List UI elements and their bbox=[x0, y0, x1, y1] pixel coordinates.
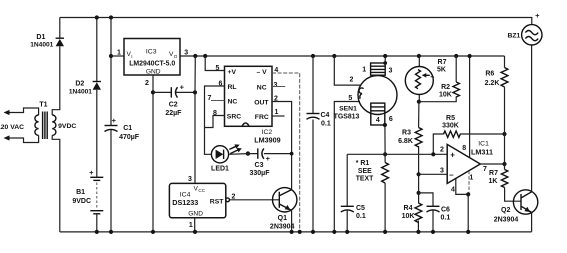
resistor R3 6.8K bbox=[398, 102, 422, 175]
svg-text:6: 6 bbox=[389, 116, 393, 123]
svg-text:IC1: IC1 bbox=[478, 141, 489, 148]
IC2 LM3909 bbox=[208, 65, 281, 145]
svg-text:0.1: 0.1 bbox=[321, 121, 331, 128]
svg-text:4: 4 bbox=[376, 117, 380, 124]
svg-text:C1: C1 bbox=[123, 125, 132, 132]
node: IC1 gnd / bottom rail bbox=[466, 230, 470, 234]
5V rail bbox=[180, 55, 505, 57]
svg-text:330K: 330K bbox=[442, 123, 459, 130]
wire IC2 pin1 FRC stub bbox=[272, 115, 285, 117]
node: pot / R2 junction bbox=[417, 100, 421, 104]
svg-text:DS1233: DS1233 bbox=[172, 198, 198, 207]
capacitor C1 bbox=[105, 116, 140, 141]
svg-text:* R1: * R1 bbox=[356, 160, 370, 167]
node: C4 / bottom rail bbox=[311, 230, 315, 234]
svg-text:LM3909: LM3909 bbox=[254, 136, 280, 145]
node: 5V rail / C4 line bbox=[311, 54, 315, 58]
wire pins 1-4 to ground bbox=[467, 194, 469, 232]
svg-text:6.8K: 6.8K bbox=[398, 138, 413, 145]
svg-text:0.1: 0.1 bbox=[441, 215, 451, 222]
node: R5 / output line bbox=[502, 132, 506, 136]
wire SEN1 pin 5 to ground bbox=[334, 102, 360, 232]
svg-text:SEN1: SEN1 bbox=[339, 106, 357, 113]
wire IC1 pin 7 output bbox=[480, 163, 504, 165]
- input wire to IC1 pin 3 bbox=[419, 173, 448, 175]
wire IC2 pin7 NC stub bbox=[211, 100, 225, 102]
svg-text:9VDC: 9VDC bbox=[72, 198, 91, 205]
resistor R6 2.2K bbox=[485, 56, 508, 134]
svg-text:2: 2 bbox=[350, 77, 354, 84]
wire to R4 bbox=[418, 174, 420, 203]
node: sensor line / + input line bbox=[383, 152, 387, 156]
wire IC1 pin 1 bbox=[468, 171, 470, 195]
node: GND line / C2 bbox=[151, 90, 155, 94]
diode D2 bbox=[69, 18, 101, 178]
svg-text:NC: NC bbox=[257, 84, 267, 91]
svg-text:2: 2 bbox=[440, 146, 444, 153]
node: C3 / OUT line bbox=[290, 152, 294, 156]
svg-text:RST: RST bbox=[210, 199, 224, 206]
wire IC2 pin4 -V to ground bbox=[272, 73, 300, 232]
wire IC2 pin5 +V bbox=[205, 56, 224, 71]
svg-text:IC3: IC3 bbox=[146, 48, 157, 55]
svg-text:C6: C6 bbox=[441, 206, 450, 213]
svg-text:D2: D2 bbox=[75, 81, 84, 88]
node: 5V rail / R2 bbox=[454, 54, 458, 58]
svg-text:120 VAC: 120 VAC bbox=[0, 124, 24, 131]
wire IC4 pin1 to ground bbox=[194, 218, 196, 232]
svg-text:R5: R5 bbox=[446, 115, 455, 122]
svg-text:Q1: Q1 bbox=[278, 215, 287, 222]
gas sensor SEN1 TGS813 bbox=[334, 56, 397, 125]
wire IC1 pin 8 to 5V rail bbox=[469, 56, 471, 158]
svg-text:SEE: SEE bbox=[358, 168, 372, 175]
node: C6 branch bbox=[417, 191, 421, 195]
svg-text:22µF: 22µF bbox=[165, 110, 182, 117]
capacitor C6 bbox=[419, 193, 451, 232]
svg-text:9VDC: 9VDC bbox=[58, 123, 76, 130]
svg-text:8: 8 bbox=[462, 145, 466, 152]
node: IC4 pin1 / bottom rail bbox=[193, 230, 197, 234]
wire IC2 pin6 RL to LED1 bbox=[205, 86, 225, 154]
bottom rail bbox=[60, 231, 532, 233]
battery B1 9VDC bbox=[72, 168, 103, 232]
node: -V / bottom rail bbox=[298, 230, 302, 234]
wire Q2 emitter to ground bbox=[531, 212, 533, 232]
svg-text:LM311: LM311 bbox=[471, 148, 493, 157]
svg-text:10K: 10K bbox=[439, 91, 452, 98]
node: pin1/pin4 junction bbox=[466, 192, 470, 196]
svg-text:Q2: Q2 bbox=[501, 207, 510, 214]
svg-text:BZ1: BZ1 bbox=[507, 32, 520, 39]
wire C3 to OUT line bbox=[264, 153, 292, 155]
svg-text:LED1: LED1 bbox=[211, 165, 229, 172]
svg-text:RL: RL bbox=[228, 84, 237, 91]
wire Q2 collector to BZ1 bbox=[531, 45, 533, 192]
svg-text:+: + bbox=[112, 116, 117, 125]
svg-text:TGS813: TGS813 bbox=[334, 113, 360, 120]
svg-text:FRC: FRC bbox=[255, 114, 269, 121]
wire C4 line bbox=[312, 56, 314, 232]
capacitor C3 330uF bbox=[250, 148, 271, 177]
svg-text:+: + bbox=[89, 168, 94, 177]
svg-text:TEXT: TEXT bbox=[356, 176, 374, 183]
node: B1 / bottom rail bbox=[95, 230, 99, 234]
resistor R7 1K bbox=[489, 170, 521, 202]
svg-text:–: – bbox=[449, 171, 454, 180]
resistor R5 330K bbox=[433, 115, 504, 154]
wire SEN1 electrode down to + input line bbox=[384, 125, 386, 154]
svg-text:SRC: SRC bbox=[227, 113, 241, 120]
node: SEN1 element top right bbox=[383, 61, 387, 65]
node: 5V rail / IC2 +V bbox=[203, 54, 207, 58]
node: C1 / bottom rail bbox=[109, 230, 113, 234]
wire IC3 GND line bbox=[152, 75, 154, 232]
wire Q1 emitter to ground bbox=[291, 210, 293, 232]
svg-text:+: + bbox=[535, 11, 540, 20]
svg-text:3: 3 bbox=[274, 82, 278, 89]
node: GND line / bottom rail bbox=[151, 230, 155, 234]
svg-text:7: 7 bbox=[208, 95, 212, 102]
wire SEN1 pin 2 bbox=[334, 56, 360, 85]
svg-text:2N3904: 2N3904 bbox=[494, 216, 519, 223]
svg-text:1: 1 bbox=[117, 50, 121, 57]
svg-text:LM2940CT-5.0: LM2940CT-5.0 bbox=[129, 61, 175, 68]
wire IC2 pin2 OUT down to Q1 collector bbox=[272, 102, 292, 190]
node: 5V rail / SEN1 pin2 bbox=[332, 54, 336, 58]
svg-text:– V: – V bbox=[257, 69, 268, 76]
svg-text:O: O bbox=[174, 54, 178, 59]
svg-text:R4: R4 bbox=[404, 205, 413, 212]
node: 5V rail / SEN1 pins1-3 bbox=[383, 54, 387, 58]
capacitor C2 bbox=[153, 83, 195, 118]
transistor Q2 2N3904 bbox=[494, 190, 538, 224]
resistor R4 10K bbox=[402, 203, 422, 232]
svg-text:R2: R2 bbox=[441, 84, 450, 91]
resistor R1 (see text) bbox=[356, 154, 389, 232]
capacitor C5 bbox=[341, 205, 366, 220]
svg-text:3: 3 bbox=[188, 176, 192, 183]
svg-text:1: 1 bbox=[275, 109, 279, 116]
svg-text:I: I bbox=[131, 54, 132, 59]
svg-text:R7: R7 bbox=[489, 170, 498, 177]
svg-text:1: 1 bbox=[189, 222, 193, 229]
node: LED1 / C3 bbox=[246, 151, 250, 155]
wire C1 line bbox=[110, 18, 112, 232]
node: - input line bbox=[417, 172, 421, 176]
node: top rail / C1 line bbox=[109, 15, 113, 19]
svg-text:3: 3 bbox=[388, 67, 392, 74]
svg-text:1N4001: 1N4001 bbox=[69, 88, 92, 95]
svg-text:C5: C5 bbox=[356, 205, 365, 212]
node: C2 / IC4 line bbox=[193, 90, 197, 94]
svg-text:GND: GND bbox=[146, 69, 161, 76]
svg-text:B1: B1 bbox=[76, 189, 85, 196]
svg-text:470µF: 470µF bbox=[119, 134, 140, 141]
node: top rail / D2 bbox=[95, 15, 99, 19]
svg-text:5K: 5K bbox=[437, 67, 446, 74]
node: Q1 emitter / bottom rail bbox=[290, 230, 294, 234]
LED1 bbox=[211, 142, 243, 172]
wire C5 branch bbox=[346, 154, 348, 232]
svg-text:OUT: OUT bbox=[254, 99, 269, 106]
svg-text:10K: 10K bbox=[402, 213, 415, 220]
node: SEN1 bottom element bbox=[383, 123, 387, 127]
svg-text:+: + bbox=[180, 83, 185, 92]
node: C5 / bottom rail bbox=[345, 230, 349, 234]
node: R1 / bottom rail bbox=[383, 230, 387, 234]
node: R4 / bottom rail bbox=[416, 230, 420, 234]
+ input line of IC1 bbox=[347, 153, 447, 155]
wire pot node to R2 bottom bbox=[419, 97, 456, 102]
svg-text:5: 5 bbox=[348, 95, 352, 102]
resistor R2 10K bbox=[439, 56, 459, 98]
potentiometer R7 5K bbox=[405, 56, 446, 102]
transformer T1 bbox=[0, 102, 76, 143]
svg-text:0.1: 0.1 bbox=[356, 213, 366, 220]
node: SEN1 pin5 / bottom rail bbox=[332, 230, 336, 234]
svg-text:1K: 1K bbox=[489, 178, 498, 185]
op-amp IC1 LM311 bbox=[440, 141, 493, 194]
wire IC1 pin 4 bbox=[456, 179, 468, 195]
svg-text:+: + bbox=[266, 154, 271, 163]
regulator IC3 LM2940CT-5.0 bbox=[111, 39, 188, 88]
svg-text:C4: C4 bbox=[321, 112, 330, 119]
svg-text:GND: GND bbox=[188, 210, 203, 217]
IC4 DS1233 bbox=[169, 176, 235, 229]
node: R5 / + input bbox=[431, 152, 435, 156]
svg-text:+V: +V bbox=[228, 69, 237, 76]
svg-text:3: 3 bbox=[440, 168, 444, 175]
svg-text:R6: R6 bbox=[485, 71, 494, 78]
svg-text:4: 4 bbox=[451, 187, 455, 194]
transistor Q1 2N3904 bbox=[270, 188, 297, 231]
svg-text:R3: R3 bbox=[402, 130, 411, 137]
wire 5V to IC4 Vcc bbox=[194, 56, 196, 183]
svg-text:1N4001: 1N4001 bbox=[30, 41, 53, 48]
svg-text:C2: C2 bbox=[169, 101, 178, 108]
buzzer BZ1 bbox=[507, 11, 542, 45]
diode D1 bbox=[30, 18, 64, 49]
svg-text:1: 1 bbox=[362, 67, 366, 74]
wire RST to Q1 base bbox=[230, 199, 280, 201]
svg-text:2: 2 bbox=[145, 80, 149, 87]
svg-text:CC: CC bbox=[198, 188, 205, 193]
svg-text:1: 1 bbox=[469, 175, 473, 182]
svg-text:7: 7 bbox=[483, 166, 487, 173]
svg-text:2N3904: 2N3904 bbox=[270, 224, 295, 231]
top rail bbox=[60, 18, 532, 25]
node: C6 / bottom rail bbox=[431, 230, 435, 234]
svg-text:R7: R7 bbox=[438, 59, 447, 66]
svg-text:NC: NC bbox=[228, 98, 238, 105]
svg-text:330µF: 330µF bbox=[250, 170, 271, 177]
svg-text:T1: T1 bbox=[39, 102, 47, 109]
svg-text:2.2K: 2.2K bbox=[485, 80, 500, 87]
svg-text:3: 3 bbox=[184, 50, 188, 57]
svg-text:D1: D1 bbox=[36, 34, 45, 41]
wire IC2 pin3 NC stub bbox=[272, 86, 285, 88]
svg-text:C3: C3 bbox=[255, 162, 264, 169]
node: 5V rail / pin 8 bbox=[468, 54, 472, 58]
wire secondary top to D1 bbox=[52, 46, 60, 115]
wire IC2 pin8 SRC bbox=[205, 116, 225, 128]
node: 5V rail / R7 pot bbox=[417, 54, 421, 58]
wire output node down bbox=[504, 134, 506, 170]
capacitor C4 bbox=[307, 112, 331, 128]
node: 5V rail / C2-IC4 line bbox=[193, 54, 197, 58]
node: output bbox=[502, 162, 506, 166]
node: C1 line / IC3 pin1 bbox=[109, 54, 113, 58]
svg-text:+: + bbox=[450, 150, 455, 159]
wire LED1 to C3 bbox=[229, 153, 258, 156]
wire secondary bottom to ground rail bbox=[52, 135, 60, 232]
